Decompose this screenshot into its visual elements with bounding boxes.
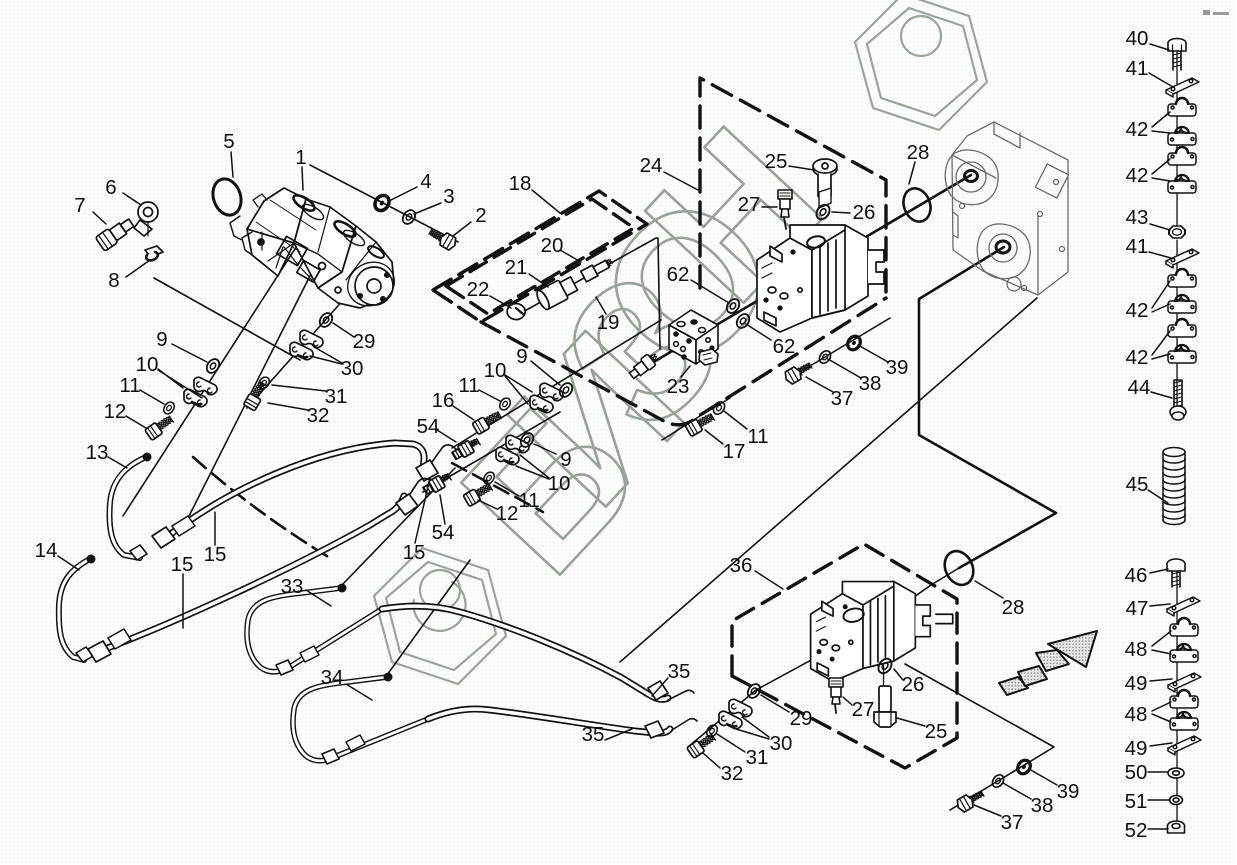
leader 47: [1150, 604, 1170, 606]
leader 54a: [437, 430, 456, 442]
leader 29b: [761, 695, 789, 712]
hose 35 lower: [428, 709, 697, 738]
svg-text:29: 29: [353, 330, 376, 353]
leader 28a: [909, 162, 915, 184]
svg-text:39: 39: [886, 356, 909, 379]
svg-text:28: 28: [1002, 596, 1025, 619]
leader 11c: [495, 482, 519, 496]
hose 15 lower: [88, 478, 432, 662]
svg-text:30: 30: [341, 357, 364, 380]
axis line clamp row to valve 23: [452, 320, 661, 448]
leader 42b: [1152, 159, 1170, 181]
leader 33: [306, 590, 331, 606]
svg-text:12: 12: [104, 400, 127, 423]
svg-text:35: 35: [668, 660, 691, 683]
bolt 25b below pump: [874, 686, 896, 727]
axis line gearbox lower port bracket to o-ring 28: [919, 247, 1056, 568]
svg-text:49: 49: [1125, 672, 1148, 695]
leader 17: [705, 430, 723, 444]
leader 41: [1149, 73, 1173, 87]
leader 42c: [1152, 281, 1170, 312]
bolt 37b washer 38b washer 39b bottom right: [955, 787, 986, 813]
svg-text:49: 49: [1125, 737, 1148, 760]
washer 51: [1170, 796, 1183, 805]
axis line pump 1 to clamp 29a group: [247, 298, 345, 408]
svg-text:42: 42: [1126, 346, 1149, 369]
svg-text:62: 62: [773, 335, 796, 358]
leader 9a: [172, 344, 207, 362]
svg-text:19: 19: [597, 311, 620, 334]
spiral wrap 45: [1163, 448, 1185, 525]
svg-text:15: 15: [171, 553, 194, 576]
axis line bolt 37b group: [905, 664, 1054, 810]
plate 41b: [1166, 249, 1199, 268]
leader 35b: [605, 729, 632, 740]
heavy dash-dot boundary lines: [193, 78, 957, 768]
leader 22: [490, 296, 511, 308]
fittings 19-22 in kit 18: [507, 256, 614, 319]
o-ring 5: [208, 175, 245, 219]
leader 26a: [832, 212, 850, 213]
clamp row mid: fitting 54a bolt 16 washer 11 clamps 10 ring 9: [451, 436, 482, 461]
dashed boundary lower-left: [193, 457, 330, 558]
svg-text:41: 41: [1126, 57, 1149, 80]
bolt 25a above pump: [813, 159, 837, 208]
leader 10a: [158, 369, 202, 398]
rigid pipe 14: [59, 555, 96, 663]
svg-text:23: 23: [667, 375, 690, 398]
kit box 24 dashed frame: [700, 78, 886, 298]
washer 3: [400, 208, 418, 227]
leader 20: [560, 250, 581, 262]
svg-text:38: 38: [859, 372, 882, 395]
leader 41b: [1149, 252, 1171, 258]
leader 6: [123, 193, 141, 205]
leader 32b: [703, 753, 720, 768]
leader 29a: [333, 323, 354, 337]
leader 23: [681, 366, 690, 377]
svg-text:62: 62: [667, 263, 690, 286]
rigid pipe 13: [110, 453, 152, 561]
bolt 40: [1168, 39, 1186, 71]
plate 47: [1167, 597, 1200, 616]
clamp 42 first pair: [1168, 98, 1196, 116]
svg-text:26: 26: [853, 201, 876, 224]
kit box 36 dashed frame: [732, 544, 957, 768]
leader 24: [664, 172, 698, 190]
leader 18: [532, 190, 560, 213]
leader 27b: [843, 697, 852, 705]
leader 46: [1150, 569, 1168, 573]
o-rings 62: [724, 297, 742, 316]
svg-text:12: 12: [496, 502, 519, 525]
svg-text:47: 47: [1126, 597, 1149, 620]
svg-text:54: 54: [417, 415, 440, 438]
plug 22: [507, 304, 525, 320]
leader 42a: [1152, 112, 1170, 133]
o-ring 28a: [899, 185, 935, 226]
svg-text:38: 38: [1031, 794, 1054, 817]
leader 11d: [724, 411, 747, 429]
axis line screw 17 group: [662, 398, 730, 440]
svg-text:48: 48: [1125, 703, 1148, 726]
svg-text:25: 25: [925, 720, 948, 743]
o-ring 26b: [876, 656, 894, 676]
leader 2: [453, 222, 471, 236]
svg-text:11: 11: [747, 425, 768, 448]
svg-text:44: 44: [1128, 376, 1151, 399]
clamp 42 fourth pair: [1168, 319, 1196, 337]
elbow fitting 6: [134, 202, 158, 236]
nut 8: [145, 246, 163, 260]
leader 11b: [479, 390, 500, 401]
svg-text:18: 18: [509, 172, 532, 195]
leader 3: [414, 203, 441, 214]
leader 19: [596, 297, 606, 314]
svg-text:43: 43: [1126, 206, 1149, 229]
leader 38b: [1003, 783, 1031, 799]
clamp 42 third pair: [1168, 269, 1196, 287]
leader 13: [108, 457, 127, 468]
clamp 48 first pair: [1170, 618, 1198, 636]
svg-text:54: 54: [432, 521, 455, 544]
leader line pipe 34 ball up: [387, 560, 470, 675]
leader 62b: [746, 324, 771, 340]
svg-text:37: 37: [831, 387, 854, 410]
connection line gearbox to hose area: [620, 298, 1037, 662]
rigid pipe 33: [247, 584, 382, 676]
leader 51: [1148, 799, 1170, 801]
svg-text:42: 42: [1126, 164, 1149, 187]
svg-text:11: 11: [119, 374, 140, 397]
svg-text:22: 22: [467, 278, 490, 301]
leader 35a: [652, 678, 668, 696]
svg-text:29: 29: [790, 707, 813, 730]
svg-text:11: 11: [458, 374, 479, 397]
leader 25b: [897, 718, 925, 726]
gearbox housing top right: [945, 122, 1068, 295]
watermark logo hexagon top-right: [855, 0, 987, 130]
leader 44: [1151, 392, 1172, 398]
svg-text:27: 27: [738, 193, 761, 216]
svg-text:16: 16: [432, 389, 455, 412]
hose 35 upper: [382, 606, 694, 700]
leader line pipe 33 ball up: [341, 468, 455, 586]
svg-text:7: 7: [74, 194, 85, 217]
leader 48a: [1152, 631, 1171, 654]
svg-text:14: 14: [35, 539, 58, 562]
watermark BIZON: [374, 0, 987, 684]
leader 37b: [974, 805, 1001, 816]
svg-text:32: 32: [721, 762, 744, 785]
leader 45: [1148, 490, 1168, 503]
svg-text:15: 15: [204, 543, 227, 566]
leader 31a: [272, 385, 326, 391]
leader 50: [1148, 771, 1168, 773]
svg-text:30: 30: [770, 732, 793, 755]
leader 15b: [182, 574, 184, 628]
stud 44: [1170, 380, 1186, 420]
plate 49b: [1168, 736, 1201, 755]
leader 15a: [214, 512, 216, 545]
svg-text:11: 11: [518, 489, 539, 512]
svg-text:10: 10: [484, 359, 507, 382]
hose 15 upper: [152, 443, 456, 548]
washer 50: [1168, 768, 1184, 778]
svg-text:37: 37: [1001, 811, 1024, 834]
svg-text:9: 9: [516, 345, 527, 368]
svg-text:33: 33: [281, 575, 304, 598]
leader 25a: [789, 166, 814, 170]
leader 26b: [894, 669, 903, 680]
svg-text:50: 50: [1125, 761, 1148, 784]
leader 42d: [1152, 331, 1170, 359]
svg-text:5: 5: [223, 130, 234, 153]
svg-text:20: 20: [541, 234, 564, 257]
leader line fitting 8 down: [154, 278, 300, 360]
page corner mark: [1203, 10, 1229, 15]
axis line gearbox upper port to valve 23: [640, 175, 971, 370]
direction arrow bottom right: [999, 631, 1097, 695]
leader 14: [58, 556, 79, 570]
svg-text:10: 10: [548, 472, 571, 495]
leader 9c: [534, 444, 556, 454]
main exploded-view axis lines: [640, 175, 1056, 568]
watermark logo hexagon lower-left: [374, 548, 506, 684]
valve cartridge 27b: [829, 678, 843, 713]
clamp 42 second pair: [1168, 147, 1196, 165]
clamp group 29b 30b bottom: [745, 682, 763, 701]
leader 5: [231, 152, 233, 177]
leader 1: [302, 167, 303, 190]
svg-text:15: 15: [403, 541, 426, 564]
svg-text:8: 8: [108, 269, 119, 292]
svg-text:3: 3: [443, 185, 454, 208]
svg-text:34: 34: [321, 666, 344, 689]
svg-text:21: 21: [505, 256, 528, 279]
plate 49: [1168, 673, 1201, 692]
leader 48b: [1152, 702, 1171, 722]
o-ring 28b: [939, 546, 978, 589]
valve block 23: [669, 310, 718, 365]
svg-text:45: 45: [1126, 473, 1149, 496]
svg-text:2: 2: [475, 204, 486, 227]
leader line pump 1 to pipe 14: [186, 252, 322, 522]
leader 30a: [310, 348, 342, 364]
svg-text:32: 32: [307, 404, 330, 427]
axis line lower pump assembly: [688, 568, 959, 747]
svg-text:51: 51: [1125, 790, 1148, 813]
axis line lower clamp row: [423, 412, 560, 492]
leader 11a: [140, 390, 164, 404]
axis line washers 2 3 4: [310, 165, 458, 242]
clamp 48 second pair: [1170, 690, 1198, 708]
leader 36: [755, 571, 783, 589]
sensor plug 7: [95, 216, 136, 252]
svg-text:4: 4: [420, 170, 431, 193]
dashed segment mid: [452, 463, 543, 512]
leader 43: [1150, 224, 1170, 230]
leader 62a: [691, 280, 729, 303]
leader 4: [391, 187, 417, 200]
svg-text:13: 13: [86, 441, 109, 464]
leader 28b: [975, 581, 1003, 598]
axis line fittings 19-22 and riser to valve 23: [512, 238, 660, 349]
svg-text:41: 41: [1126, 235, 1149, 258]
leader 10b: [505, 375, 532, 404]
leader 21: [529, 274, 548, 287]
pump unit in kit 24: [757, 225, 884, 332]
svg-text:42: 42: [1126, 299, 1149, 322]
leader 39a: [858, 345, 888, 362]
washer 4: [372, 193, 392, 214]
leader 37a: [806, 377, 833, 392]
svg-text:46: 46: [1125, 564, 1148, 587]
leader 9b: [531, 361, 560, 385]
svg-text:6: 6: [105, 176, 116, 199]
svg-text:42: 42: [1126, 118, 1149, 141]
leader 7: [93, 212, 106, 224]
leader 15c: [415, 478, 430, 543]
leader 49b: [1150, 743, 1172, 746]
nut 52: [1168, 821, 1185, 833]
leader 49a: [1150, 679, 1172, 681]
svg-text:25: 25: [765, 150, 788, 173]
svg-text:1: 1: [295, 146, 306, 169]
plate 41: [1166, 78, 1199, 97]
svg-text:10: 10: [136, 353, 159, 376]
screw 17 washer 11 right of valve 23: [685, 411, 716, 436]
clamp group 29a 30a below pump 1: [317, 311, 335, 330]
svg-text:17: 17: [723, 440, 746, 463]
hex bolt 2: [427, 225, 458, 251]
pump unit in kit 36: [811, 582, 953, 695]
clamp group 9a 10a: [204, 357, 222, 376]
svg-text:9: 9: [156, 328, 167, 351]
valve cartridge 27a: [778, 190, 792, 229]
leader 31b: [717, 734, 745, 752]
nut 43: [1169, 226, 1185, 238]
right column assembly axes: [1176, 52, 1178, 830]
svg-text:48: 48: [1125, 638, 1148, 661]
leader 40: [1150, 44, 1169, 50]
leader 27a: [762, 206, 777, 208]
svg-text:40: 40: [1126, 27, 1149, 50]
svg-text:24: 24: [640, 154, 663, 177]
relief valve on block 23: [627, 350, 661, 381]
clamp row mid lower: fitting 54b bolt 12 washer 11 clamps 10 ring 9: [422, 471, 453, 496]
leader line pump 1 to pipe 13: [123, 238, 302, 516]
leader 12a: [126, 416, 146, 428]
svg-text:52: 52: [1125, 819, 1148, 842]
leader 16: [453, 406, 474, 420]
kit box 18 inner dashed frame: [446, 199, 634, 314]
leader 38a: [828, 359, 861, 378]
leader 8: [126, 260, 150, 277]
kit box 18 outer dashed frame: [433, 191, 647, 322]
kit 18 extension dashed line with hook to box 24: [481, 298, 886, 425]
svg-text:26: 26: [902, 673, 925, 696]
leader 34: [346, 684, 372, 700]
sleeve 21: [535, 274, 579, 311]
leader 32a: [268, 403, 308, 410]
pump unit 1 top left: [230, 188, 402, 314]
leader 10c: [516, 455, 549, 479]
svg-text:39: 39: [1057, 780, 1080, 803]
bolt 46: [1167, 559, 1185, 587]
svg-text:27: 27: [852, 698, 875, 721]
svg-text:35: 35: [582, 723, 605, 746]
svg-text:9: 9: [560, 448, 571, 471]
rigid pipe 34: [293, 673, 428, 765]
fitting 20: [581, 256, 615, 282]
leader 54b: [440, 495, 445, 524]
bolt 37a washer 38a washer 39a: [783, 359, 814, 385]
leader 12c: [478, 500, 497, 509]
svg-text:28: 28: [907, 141, 930, 164]
svg-text:36: 36: [730, 554, 753, 577]
leader 39b: [1029, 769, 1057, 785]
axis line bolt 37a group: [790, 318, 890, 378]
svg-text:31: 31: [746, 746, 769, 769]
leader 30b: [736, 717, 769, 739]
o-ring 26a: [814, 202, 832, 222]
leader 52: [1148, 828, 1168, 830]
